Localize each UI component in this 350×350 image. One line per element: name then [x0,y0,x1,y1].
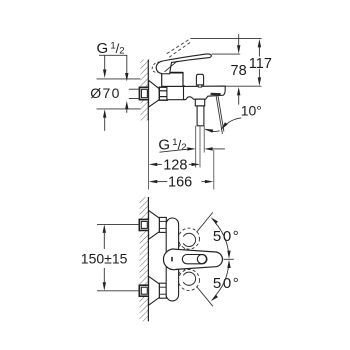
extension line C (spout top level) [225,85,261,87]
lever handle (plan view) [163,249,222,270]
pipe extension lines [196,126,214,190]
upper 50deg radial line [197,212,213,232]
handle lever (side view) [156,54,211,74]
lever slot (plan view) [182,255,207,264]
svg-text:10°: 10° [241,103,262,119]
lever centerline [224,258,234,260]
wall hatch (side view) [140,60,148,121]
extension line B (handle top level) [212,53,241,55]
lower escutcheon cone (plan view) [149,276,160,305]
dimension D70 [90,79,140,131]
upper dashed lever lobe [174,228,200,255]
dimension G1/2 top label [97,40,129,82]
upper 50deg arc [216,223,229,250]
lever slot circle [197,255,206,264]
upper supply square (plan view) [139,219,149,230]
svg-text:166: 166 [168,175,192,191]
supply square union on wall (side view) [139,87,149,99]
lower union nut (plan view) [159,283,166,298]
svg-text:78: 78 [231,63,247,79]
extension line A top (raised handle level) [190,37,261,39]
upper escutcheon cone (plan view) [149,210,160,239]
dimension 150+-15 [81,224,140,290]
dimension 10 deg [205,103,262,133]
lower supply square (plan view) [139,285,149,296]
dimension 117 [249,39,272,86]
svg-text:117: 117 [249,56,272,72]
wall hatch (plan view) [140,197,149,321]
spout beam with tip (side view) [184,86,226,100]
svg-text:Ø70: Ø70 [90,85,121,101]
valve body (side view) [167,86,184,100]
shower outlet pipe (side view) [195,99,204,126]
union nut (side view) [159,87,167,100]
svg-text:50°: 50° [213,228,240,245]
dimension G1/2 bottom label [158,136,225,153]
wall face extension line (side view) [147,120,149,189]
cartridge cap under handle (side view) [162,73,183,87]
escutcheon cone (side view) [149,80,160,107]
water stream lines [216,96,224,134]
handle inner contour (side view) [165,61,178,72]
body pill (plan view) [166,218,178,301]
svg-text:128: 128 [163,157,187,173]
mousseur dark bar (side view) [210,93,220,96]
svg-text:150±15: 150±15 [81,250,128,266]
diverter knob (side view) [196,74,203,87]
lower dashed lever lobe [174,263,200,290]
dashed raised knuckle (side view) [150,60,165,75]
svg-text:50°: 50° [213,275,240,292]
dashed raised handle (side view) [167,39,192,58]
upper union nut (plan view) [159,217,166,232]
dimension 128 [149,157,200,173]
dimension 166 [149,175,214,191]
lower 50deg arc [216,268,229,295]
dimension 78 [231,34,247,105]
lower 50deg radial line [197,286,213,306]
lever marker tick [171,257,173,262]
